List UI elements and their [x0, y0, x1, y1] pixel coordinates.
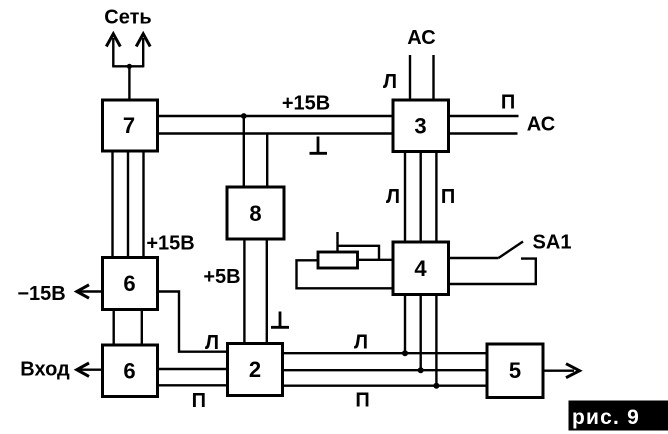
wire AC input right	[432, 55, 434, 100]
wire block 6 upper to block 6 lower left	[112, 310, 114, 346]
net label +15В (top)	[282, 93, 330, 115]
net label Л (above bus)	[354, 332, 368, 354]
block 6 lower	[103, 345, 158, 397]
svg-text:+15В: +15В	[282, 93, 330, 115]
wire potentiometer right terminal to block 4	[358, 259, 394, 261]
svg-text:6: 6	[123, 359, 135, 384]
svg-text:8: 8	[249, 201, 261, 226]
block 2	[228, 344, 283, 396]
svg-text:П: П	[441, 186, 455, 208]
block 8	[227, 187, 284, 239]
wire mains stem from block 7 top	[128, 66, 130, 100]
svg-text:П: П	[355, 390, 369, 412]
block 5	[487, 344, 543, 398]
svg-text:2: 2	[249, 357, 261, 382]
svg-text:+15В: +15В	[146, 233, 194, 255]
net label Вход	[20, 359, 70, 381]
junction dot П line	[433, 383, 439, 389]
net label SA1	[533, 232, 572, 254]
net label П (below left wire)	[192, 390, 206, 412]
net label Л (left of block 3)	[383, 71, 397, 93]
svg-text:Л: Л	[386, 186, 400, 208]
wire block 3 right upper	[449, 115, 519, 117]
wire switch common from block 4	[449, 257, 499, 259]
wire mains fork bar	[112, 65, 144, 67]
wire block 7 to block 6 first	[111, 151, 113, 258]
svg-text:Л: Л	[205, 332, 219, 354]
wire block 4 to Л line	[404, 295, 406, 354]
wire input output arrow	[80, 369, 103, 371]
arrowhead mains right	[136, 34, 150, 47]
svg-text:7: 7	[123, 113, 135, 138]
svg-text:SA1: SA1	[533, 232, 572, 254]
wire block 3 right lower	[449, 132, 518, 134]
svg-text:Л: Л	[383, 71, 397, 93]
svg-text:АС: АС	[527, 114, 555, 136]
svg-text:Сеть: Сеть	[104, 7, 151, 29]
junction dot +15V bus	[241, 113, 247, 119]
svg-text:АС: АС	[407, 27, 435, 49]
wire block 3 to block 4 right	[435, 152, 437, 243]
switch SA1 blade	[499, 242, 524, 259]
ground symbol near block 2	[271, 312, 289, 328]
net label Л (below block 3)	[386, 186, 400, 208]
svg-text:Л: Л	[354, 332, 368, 354]
wire -15V output	[80, 290, 103, 292]
net label П (below bus)	[355, 390, 369, 412]
wire middle bus block 2 to block 5	[283, 369, 488, 371]
block 3	[393, 100, 449, 152]
svg-text:5: 5	[509, 358, 521, 383]
junction dot on mains fork	[127, 64, 132, 69]
net label П (right of block 3)	[501, 92, 515, 114]
svg-text:6: 6	[123, 271, 135, 296]
potentiometer box	[318, 252, 358, 268]
arrowhead input	[77, 363, 89, 376]
svg-text:П: П	[501, 92, 515, 114]
junction dot Л line	[402, 350, 408, 356]
wire block 6 lower to block 2 upper	[158, 368, 228, 370]
wire second bus block 7 to block 3	[158, 132, 394, 134]
wire block 8 to block 2 right	[266, 239, 268, 344]
caption рис. 9	[569, 401, 668, 431]
wire block 3 to block 4 middle	[420, 152, 422, 243]
wire block 6 upper to block 6 lower right	[141, 310, 143, 346]
wire Л bus block 2 to block 5	[283, 352, 488, 354]
svg-text:+5В: +5В	[203, 266, 240, 288]
net label Л (left of block 2)	[205, 332, 219, 354]
net label +15В (left)	[146, 233, 194, 255]
arrowhead mains left	[106, 34, 120, 47]
svg-text:−15В: −15В	[17, 283, 65, 305]
wire switch contact	[449, 259, 536, 284]
block 6 upper	[103, 258, 158, 310]
wire AC input left	[409, 55, 411, 100]
ground symbol near +15V bus	[310, 137, 328, 154]
net label АС (top)	[407, 27, 435, 49]
net label Сеть	[104, 7, 151, 29]
wire potentiometer tap	[336, 232, 338, 252]
wire second drop to block 8	[266, 134, 268, 188]
svg-text:рис. 9: рис. 9	[572, 406, 640, 429]
wire block 7 to block 6 third	[142, 151, 144, 258]
net label П (below block 3)	[441, 186, 455, 208]
junction dot middle line	[418, 367, 424, 373]
wire potentiometer left loop to block 4	[297, 260, 394, 288]
block 7	[103, 100, 158, 151]
wire П bus block 2 to block 5	[283, 385, 488, 387]
net label -15В	[17, 283, 65, 305]
wire block 6 lower to block 2 lower	[158, 384, 228, 386]
wire block 3 to block 4 left	[404, 152, 406, 243]
wire block 7 to block 6 second	[127, 151, 129, 258]
svg-text:3: 3	[414, 114, 426, 139]
wire block 6 upper to node Л bend	[158, 292, 228, 352]
wire mains right arm	[142, 38, 144, 66]
net label +5В	[203, 266, 240, 288]
wire tap link to right terminal	[338, 246, 380, 260]
wire block 4 to middle line	[420, 295, 422, 371]
wire +15V bus block 7 to block 3	[158, 115, 394, 117]
block 4	[393, 242, 449, 295]
svg-text:Вход: Вход	[20, 359, 70, 381]
wire mains left arm	[112, 38, 114, 66]
wire block 4 to П line	[435, 295, 437, 386]
arrowhead -15V output	[77, 285, 89, 298]
wire +15V drop to block 8	[243, 116, 245, 187]
net label АС (right)	[527, 114, 555, 136]
wire block 8 to block 2 left	[243, 239, 245, 344]
arrowhead output	[566, 364, 580, 378]
wire output from block 5	[543, 370, 574, 372]
svg-text:П: П	[192, 390, 206, 412]
svg-text:4: 4	[414, 256, 427, 281]
